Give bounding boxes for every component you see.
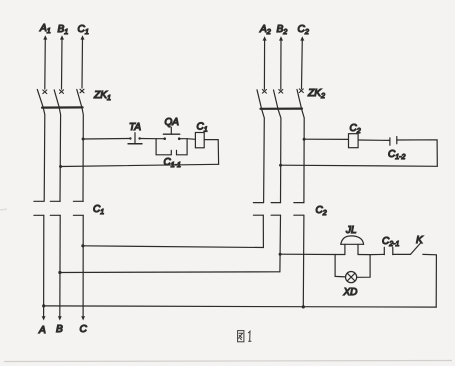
node B2 incoming line with arrow <box>279 36 283 89</box>
switch K blade <box>411 243 421 255</box>
caption 图1 (drawn) <box>238 331 251 342</box>
wire C1-2 to right corner <box>397 140 438 167</box>
node A2 incoming line with arrow <box>263 36 267 89</box>
contact C2-1 (NO) <box>384 247 393 254</box>
arrow line C end <box>81 316 85 320</box>
node coil return pole2 <box>59 165 62 168</box>
node control tap pole2 <box>279 253 282 256</box>
svg-text:A: A <box>38 325 46 336</box>
contactor C1 main contact pole1 <box>34 201 44 215</box>
switch ZK1 pole 3 contact x <box>80 89 84 93</box>
wire branch node to QA left dot <box>156 138 165 140</box>
wire C2 pole3 to bottom wire <box>302 215 305 307</box>
wire pole3 to coil C2 <box>304 138 348 140</box>
node tap pole3 control <box>82 138 85 141</box>
wire pole3 lower <box>82 215 84 318</box>
contactor C1 main contact pole3 <box>73 201 83 215</box>
node C1 incoming line with arrow <box>81 35 85 88</box>
wire K to right corner down <box>423 254 437 307</box>
wire TA to QA branch <box>140 138 157 140</box>
contactor C2 main contact pole3 <box>294 203 304 216</box>
node wire2 tap on B <box>58 271 61 274</box>
node A1 incoming line with arrow <box>43 35 47 89</box>
bell JL <box>341 236 364 255</box>
node C2 incoming line with arrow <box>300 36 304 88</box>
switch ZK2 pole 2 contact x <box>279 90 283 94</box>
contactor C2 main contact pole1 <box>253 203 263 216</box>
wire branch right to coil C1 <box>187 138 195 141</box>
switch ZK1 pole 2 contact x <box>60 90 64 94</box>
contactor C1 main contact pole2 <box>50 201 60 215</box>
wire QA right dot to branch right <box>179 138 187 140</box>
wire C2-1 to K <box>393 253 411 255</box>
pushbutton TA (NC) <box>128 133 142 144</box>
lamp XD branch <box>335 255 370 283</box>
switch ZK2 pole 1 contact x <box>262 90 266 94</box>
coil C1 box <box>195 133 204 148</box>
switch ZK2 blade 2 <box>274 90 278 109</box>
switch ZK1 pole 1 contact x <box>43 90 47 94</box>
svg-text:JL: JL <box>345 225 357 236</box>
wire coil C2 return to pole2 <box>281 165 438 166</box>
wire pole2 lower <box>59 215 61 318</box>
node tap ZK2 pole3 control <box>303 138 306 141</box>
svg-text:XD: XD <box>343 287 358 298</box>
wire ZK2 pole2 down <box>278 109 281 203</box>
svg-text:C: C <box>80 324 88 335</box>
wire ZK2 pole1 down <box>262 109 265 203</box>
svg-text:B: B <box>56 324 63 335</box>
wire pole3 to TA <box>83 138 130 141</box>
node coil C2 return pole2 <box>279 164 282 167</box>
bottom wire A to K return <box>44 306 437 307</box>
node wire1 tap on C <box>81 244 84 247</box>
wire coil C1 to right corner <box>204 140 218 165</box>
switch ZK2 blade 3 <box>297 90 302 109</box>
switch ZK1 blade 3 <box>77 90 82 108</box>
pushbutton QA (NO) <box>163 127 180 140</box>
svg-text:TA: TA <box>129 122 141 133</box>
contact C1-1 (NO, parallel with QA) <box>156 139 187 155</box>
contactor C2 main contact pole2 <box>271 203 280 216</box>
node pole3 bottom junction <box>302 305 305 308</box>
wire control tap to bell branch <box>280 253 335 255</box>
switch ZK2 bar <box>261 107 303 109</box>
wire ZK2 pole3 down <box>302 109 305 203</box>
switch ZK1 blade 1 <box>37 90 43 108</box>
wire bell branch segments <box>335 254 345 256</box>
wire coil C2 to contact C1-2 <box>358 139 390 141</box>
wire ZK1 pole3 down <box>82 108 83 202</box>
arrow line A end <box>42 316 46 320</box>
contact C1-2 (NO) <box>390 137 397 146</box>
wire coil return to pole2 <box>61 164 219 166</box>
wire B to right group pole2 <box>60 271 280 274</box>
wire ZK1 pole1 down <box>43 108 45 202</box>
wire C2 pole2 to wire2 <box>279 215 282 272</box>
wire lamp branch to C2-1 <box>370 253 384 255</box>
scanner bottom edge artifact <box>4 361 452 362</box>
node B1 incoming line with arrow <box>60 35 64 89</box>
svg-text:QA: QA <box>165 117 180 128</box>
wire pole1 lower <box>43 215 45 318</box>
node wire3 tap on A <box>42 304 45 307</box>
wire C2 pole1 to wire1 <box>262 215 264 247</box>
coil C2 box <box>349 134 359 148</box>
switch ZK2 blade 1 <box>257 90 262 109</box>
switch ZK1 bar <box>42 106 83 108</box>
wire ZK1 pole2 down <box>59 108 60 202</box>
arrow line B end <box>58 316 62 320</box>
wire C to right group pole1 <box>83 246 264 248</box>
switch ZK1 blade 2 <box>54 90 59 107</box>
switch ZK2 pole 3 contact x <box>299 89 303 93</box>
